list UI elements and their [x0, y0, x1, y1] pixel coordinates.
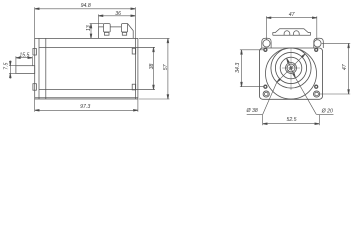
connector tab 2	[121, 24, 127, 32]
dimension 47 top	[267, 16, 317, 40]
right screw head bottom	[132, 84, 136, 90]
flange square	[260, 48, 323, 99]
dimension 97.3	[35, 99, 138, 112]
dimension 34.3 left	[240, 50, 264, 87]
dimension 47 right	[320, 43, 350, 94]
motor body outline	[35, 38, 138, 99]
dimension 36	[99, 14, 136, 27]
corner hole top-left	[264, 48, 267, 51]
connector base on top of body	[99, 24, 134, 39]
connector front profile	[273, 29, 311, 36]
motor can circle	[266, 48, 317, 99]
bore circle d20	[280, 57, 302, 79]
shaft inner ring	[287, 64, 295, 72]
bottom ring right outer	[314, 91, 320, 97]
corner hole bottom-left	[264, 85, 267, 88]
connector tab 2 inner line	[121, 31, 127, 33]
svg-text:15.5: 15.5	[19, 52, 29, 58]
svg-text:38: 38	[149, 64, 155, 70]
dimension 13	[90, 24, 104, 39]
shaft outer ring	[286, 63, 297, 74]
connector grommet 2	[294, 31, 300, 36]
left screw head top	[33, 49, 37, 56]
top ear right	[314, 38, 324, 48]
connector tab 2 contact	[122, 32, 126, 35]
connector tab 1 contact	[104, 32, 109, 35]
bottom ring right inner	[315, 92, 319, 96]
connector grommet 1	[284, 31, 290, 36]
svg-text:34.3: 34.3	[235, 63, 241, 73]
svg-text:57: 57	[163, 63, 169, 70]
pilot boss circle d38	[271, 48, 311, 88]
svg-text:97.3: 97.3	[80, 104, 90, 110]
front endbell line	[45, 38, 47, 99]
upper through-bolt line (extends right as extension line)	[39, 46, 155, 48]
corner hole bottom-right	[315, 85, 318, 88]
svg-text:7.5: 7.5	[4, 62, 10, 69]
svg-text:47: 47	[289, 12, 296, 18]
lower through-bolt line (extends right as extension line)	[39, 89, 155, 91]
bottom second line	[35, 97, 138, 99]
top ear right circle	[314, 40, 321, 47]
dimension 94.8	[35, 7, 136, 38]
crosshair	[282, 48, 300, 91]
bottom ring left outer	[263, 91, 269, 97]
svg-text:36: 36	[115, 11, 121, 17]
dimension 57	[139, 38, 170, 99]
top ear left circle	[263, 40, 270, 47]
left screw head bottom	[33, 84, 37, 91]
front flange line 2	[38, 38, 40, 99]
svg-text:52.5: 52.5	[286, 117, 296, 123]
right screw head top	[132, 48, 136, 54]
top ear left	[262, 38, 271, 48]
dimension diameter 38	[247, 54, 306, 125]
rear cover inner line	[134, 38, 136, 99]
dimension diameter 20	[287, 58, 334, 125]
dimension 38 (right inner)	[153, 47, 155, 89]
svg-text:13: 13	[86, 25, 92, 31]
svg-text:Ø 38: Ø 38	[245, 108, 257, 114]
boss step circle	[275, 52, 306, 83]
corner hole top-right	[315, 48, 318, 51]
dimension 52.5	[263, 123, 320, 125]
bottom ring left inner	[264, 92, 268, 96]
svg-text:94.8: 94.8	[81, 3, 91, 9]
center dot	[290, 67, 292, 69]
svg-text:Ø 20: Ø 20	[321, 108, 333, 114]
dimension 7.5	[9, 61, 16, 79]
svg-text:47: 47	[342, 63, 348, 70]
connector tab 1	[104, 24, 111, 32]
connector tab 1 inner line	[104, 31, 111, 33]
dimension 15.5	[16, 56, 32, 65]
shaft	[16, 66, 35, 74]
